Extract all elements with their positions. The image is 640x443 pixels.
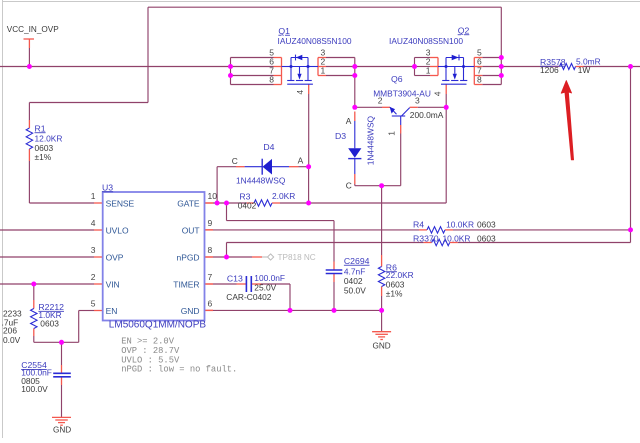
svg-text:IAUZ40N08S5N100: IAUZ40N08S5N100	[278, 36, 352, 46]
svg-text:100.0V: 100.0V	[21, 384, 48, 394]
svg-text:Q2: Q2	[458, 25, 470, 35]
svg-text:TP818 NC: TP818 NC	[278, 253, 316, 262]
svg-text:10.0KR: 10.0KR	[443, 234, 471, 244]
svg-text:LM5060Q1MM/NOPB: LM5060Q1MM/NOPB	[109, 320, 207, 331]
svg-text:1: 1	[426, 66, 431, 76]
svg-text:GND: GND	[181, 306, 200, 316]
svg-text:1: 1	[91, 191, 96, 201]
svg-text:3: 3	[91, 245, 96, 255]
svg-text:UVLO: UVLO	[106, 225, 129, 235]
svg-text:TIMER: TIMER	[173, 279, 199, 289]
svg-text:1: 1	[387, 131, 397, 136]
svg-text:Q6: Q6	[391, 74, 403, 84]
svg-text:D4: D4	[263, 142, 274, 152]
svg-text:SENSE: SENSE	[106, 198, 135, 208]
svg-text:A: A	[346, 116, 352, 126]
svg-text:10.0KR: 10.0KR	[446, 219, 474, 229]
svg-text:0.0V: 0.0V	[3, 335, 21, 345]
svg-text:1W: 1W	[578, 65, 591, 75]
svg-text:3: 3	[415, 95, 420, 105]
svg-text:R3370: R3370	[413, 234, 439, 244]
svg-text:C13: C13	[227, 274, 243, 284]
svg-text:nPGD: nPGD	[177, 252, 200, 262]
svg-text:4: 4	[433, 91, 443, 96]
svg-text:1N4448WSQ: 1N4448WSQ	[236, 176, 286, 186]
svg-text:OVP: OVP	[106, 252, 124, 262]
svg-text:OUT: OUT	[182, 225, 200, 235]
svg-text:EN: EN	[106, 306, 118, 316]
svg-text:2: 2	[91, 272, 96, 282]
svg-text:GND: GND	[373, 341, 391, 350]
svg-text:8: 8	[477, 75, 482, 85]
svg-text:R1: R1	[35, 123, 46, 133]
svg-text:GND: GND	[53, 426, 71, 435]
svg-text:C: C	[232, 156, 238, 166]
svg-text:R4: R4	[413, 219, 424, 229]
svg-text:0603: 0603	[40, 318, 59, 328]
svg-text:25.0V: 25.0V	[254, 282, 276, 292]
svg-text:nPGD : low = no fault.: nPGD : low = no fault.	[121, 365, 237, 375]
svg-text:2: 2	[378, 95, 383, 105]
svg-text:5: 5	[91, 299, 96, 309]
svg-text:9: 9	[208, 218, 213, 228]
svg-text:0603: 0603	[477, 234, 496, 244]
svg-text:200.0mA: 200.0mA	[410, 110, 444, 120]
svg-text:0402: 0402	[238, 200, 257, 210]
svg-text:C2694: C2694	[344, 256, 370, 266]
svg-text:4: 4	[91, 218, 96, 228]
svg-text:CAR-C0402: CAR-C0402	[226, 292, 271, 302]
svg-text:D3: D3	[335, 131, 346, 141]
svg-text:1206: 1206	[540, 65, 559, 75]
svg-text:7: 7	[208, 272, 213, 282]
svg-text:10: 10	[208, 191, 218, 201]
svg-text:VIN: VIN	[106, 279, 120, 289]
svg-text:U3: U3	[102, 182, 113, 192]
svg-text:8: 8	[269, 75, 274, 85]
svg-text:4: 4	[295, 90, 305, 95]
svg-text:8: 8	[208, 245, 213, 255]
svg-text:GATE: GATE	[177, 198, 200, 208]
svg-text:±1%: ±1%	[386, 289, 403, 299]
svg-text:50.0V: 50.0V	[344, 285, 366, 295]
svg-text:2.0KR: 2.0KR	[272, 191, 295, 201]
svg-text:IAUZ40N08S5N100: IAUZ40N08S5N100	[389, 36, 463, 46]
svg-text:Q1: Q1	[278, 26, 290, 36]
svg-text:6: 6	[208, 299, 213, 309]
svg-text:1: 1	[321, 66, 326, 76]
svg-text:VCC_IN_OVP: VCC_IN_OVP	[7, 25, 59, 34]
svg-text:1N4448WSQ: 1N4448WSQ	[365, 115, 375, 165]
svg-text:0603: 0603	[477, 219, 496, 229]
svg-text:EN >= 2.0V: EN >= 2.0V	[121, 337, 175, 347]
svg-text:±1%: ±1%	[35, 152, 52, 162]
svg-text:12.0KR: 12.0KR	[35, 134, 63, 144]
svg-text:A: A	[298, 156, 304, 166]
svg-text:C: C	[346, 180, 352, 190]
